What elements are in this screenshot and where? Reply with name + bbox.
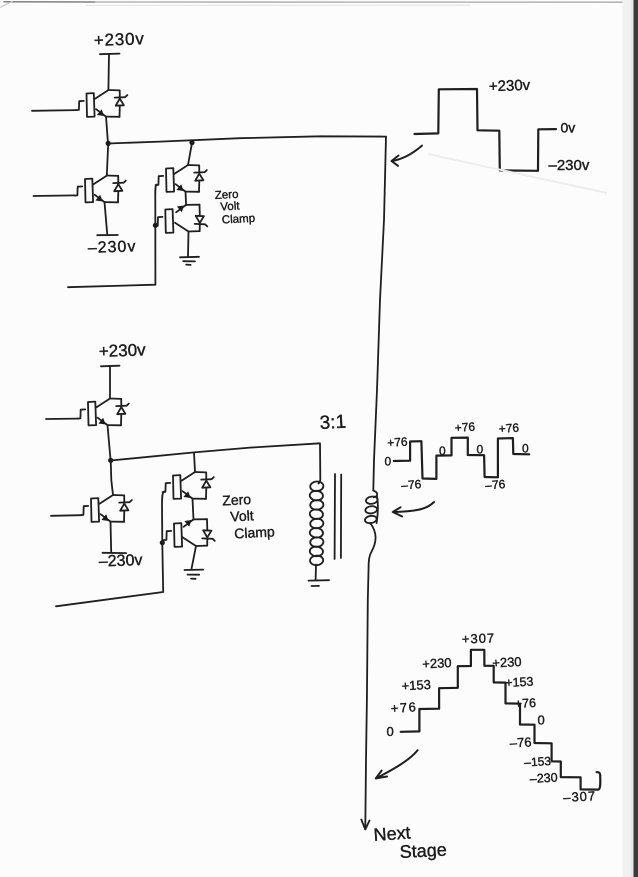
svg-text:0: 0 [522, 442, 529, 456]
svg-text:–76: –76 [485, 477, 506, 492]
+230v rail terminal [100, 53, 120, 56]
wire: Q1 emitter to stage-1 output node [106, 117, 108, 144]
arrow: staircase to next stage feed [376, 750, 417, 778]
arrow: waveform 1 to output bus [392, 146, 422, 161]
ground (stage-2 clamp) [185, 569, 204, 571]
wire: stage-2 output bus to transformer primary [111, 443, 321, 483]
svg-text:3:1: 3:1 [319, 412, 346, 434]
wire: Q1 gate input lead [32, 109, 76, 112]
transistor Q3 (high-side IGBT, stage 2) [78, 399, 129, 426]
transistor Q5 (zero-volt clamp upper, stage 1) [156, 165, 207, 192]
wire: node to Q2 collector [107, 144, 108, 176]
svg-text:0: 0 [387, 724, 394, 739]
svg-text:–230: –230 [529, 771, 558, 786]
transistor Q8 (zero-volt clamp lower, inverted, stage 2) [164, 519, 215, 547]
svg-text:+230: +230 [492, 654, 522, 671]
node: clamp tap junction (stage 1) [189, 140, 194, 145]
wire: clamp branch from bus (stage 2) [194, 453, 195, 473]
ground (transformer primary) [309, 579, 330, 581]
inductor L2 (transformer secondary winding in series bus) [364, 491, 378, 524]
+230v rail terminal (stage 2) [101, 365, 120, 368]
transistor Q4 (low-side IGBT, stage 2) [81, 495, 132, 522]
wire: Q4 emitter to -230v terminal [110, 522, 113, 553]
waveform: stage-1 output (+230/0/-230) [415, 89, 557, 171]
faint scan smudge (decorative) [428, 154, 607, 193]
svg-text:Clamp: Clamp [222, 213, 256, 227]
wire: clamp branch from bus [188, 143, 192, 165]
ground (stage-1 clamp) [180, 256, 199, 259]
wire: clamp gate bus (left vertical and bottom run, stage 2) [56, 492, 164, 607]
svg-text:0: 0 [439, 444, 446, 458]
svg-text:–230v: –230v [88, 238, 137, 257]
wire: +230v terminal to Q1 collector [107, 54, 110, 90]
node: clamp gate junction (stage 2) [160, 540, 165, 545]
-230v rail terminal (stage 2) [103, 552, 127, 554]
svg-text:+76: +76 [454, 420, 476, 435]
transistor Q6 (zero-volt clamp lower, inverted, stage 1) [155, 205, 207, 233]
svg-text:+230: +230 [422, 655, 452, 672]
node: clamp gate junction (stage 1) [153, 223, 158, 228]
wire: secondary to next-stage arrow [365, 523, 375, 828]
svg-text:–307: –307 [563, 788, 597, 805]
svg-text:0: 0 [477, 443, 484, 457]
wire: clamp to ground (stage 1) [187, 232, 190, 256]
wire: Q2 gate input lead [34, 194, 75, 197]
wire: between clamp transistors (stage 2) [193, 499, 194, 520]
svg-text:Clamp: Clamp [234, 523, 275, 541]
wire: Q3 gate input lead [46, 418, 78, 420]
wire: vertical feed from stage-1 bus into secondary [373, 137, 386, 491]
wire: +230v terminal to Q3 collector [109, 366, 111, 398]
-230v rail terminal (stage 1) [97, 234, 118, 236]
svg-text:+153: +153 [505, 675, 534, 690]
node: stage-1 output junction [106, 141, 111, 146]
arrow to next stage [361, 820, 369, 830]
wire: Q3 emitter to stage-2 output node [108, 425, 111, 460]
svg-text:0: 0 [385, 455, 392, 469]
svg-text:Volt: Volt [230, 507, 254, 524]
wire: clamp gate bus (left vertical and bottom run, stage 1) [68, 185, 157, 288]
svg-text:+76: +76 [498, 421, 520, 436]
wire: primary to ground [315, 565, 317, 581]
svg-text:Stage: Stage [399, 840, 447, 862]
node: stage-2 output junction [108, 458, 113, 463]
arrow: waveform 2 to secondary winding [394, 502, 435, 512]
svg-text:+76: +76 [514, 696, 536, 711]
svg-text:+153: +153 [401, 677, 431, 694]
wire: node to Q4 collector [111, 461, 113, 496]
svg-text:–230v: –230v [549, 157, 590, 174]
transistor Q1 (high-side IGBT with freewheel diode) [76, 90, 127, 117]
wire: between clamp transistors (stage 1) [185, 192, 188, 205]
transistor Q2 (low-side IGBT with freewheel diode) [75, 176, 126, 203]
svg-text:+76: +76 [387, 435, 409, 450]
wire: clamp to ground (stage 2) [192, 546, 197, 569]
svg-text:–230v: –230v [99, 552, 143, 571]
svg-text:0v: 0v [561, 120, 576, 136]
svg-text:+230v: +230v [93, 29, 144, 50]
transistor Q7 (zero-volt clamp upper, stage 2) [163, 472, 214, 499]
wire: stage-1 output bus (node to vertical feed corner) [108, 136, 386, 143]
svg-text:Volt: Volt [220, 200, 241, 213]
waveform: summed staircase output [401, 650, 601, 790]
wire: Q2 emitter to -230v terminal [105, 202, 108, 234]
svg-text:–76: –76 [401, 477, 422, 492]
scan artifacts: right edge strip [623, 0, 634, 877]
svg-text:Zero: Zero [222, 491, 252, 508]
wire: Q4 gate input lead [51, 514, 81, 517]
svg-text:+76: +76 [390, 699, 418, 716]
transformer core [334, 474, 336, 559]
svg-text:0: 0 [538, 713, 545, 728]
scan artifacts: top edge [0, 2, 634, 8]
svg-text:+230v: +230v [489, 77, 531, 95]
waveform: stage-2 output (+76/0/-76 steps) [394, 438, 529, 479]
svg-text:+307: +307 [462, 630, 496, 646]
inductor L1 (transformer primary winding) [309, 481, 323, 566]
svg-text:+230v: +230v [98, 340, 146, 361]
svg-text:–76: –76 [509, 734, 531, 750]
svg-text:–153: –153 [524, 754, 552, 769]
